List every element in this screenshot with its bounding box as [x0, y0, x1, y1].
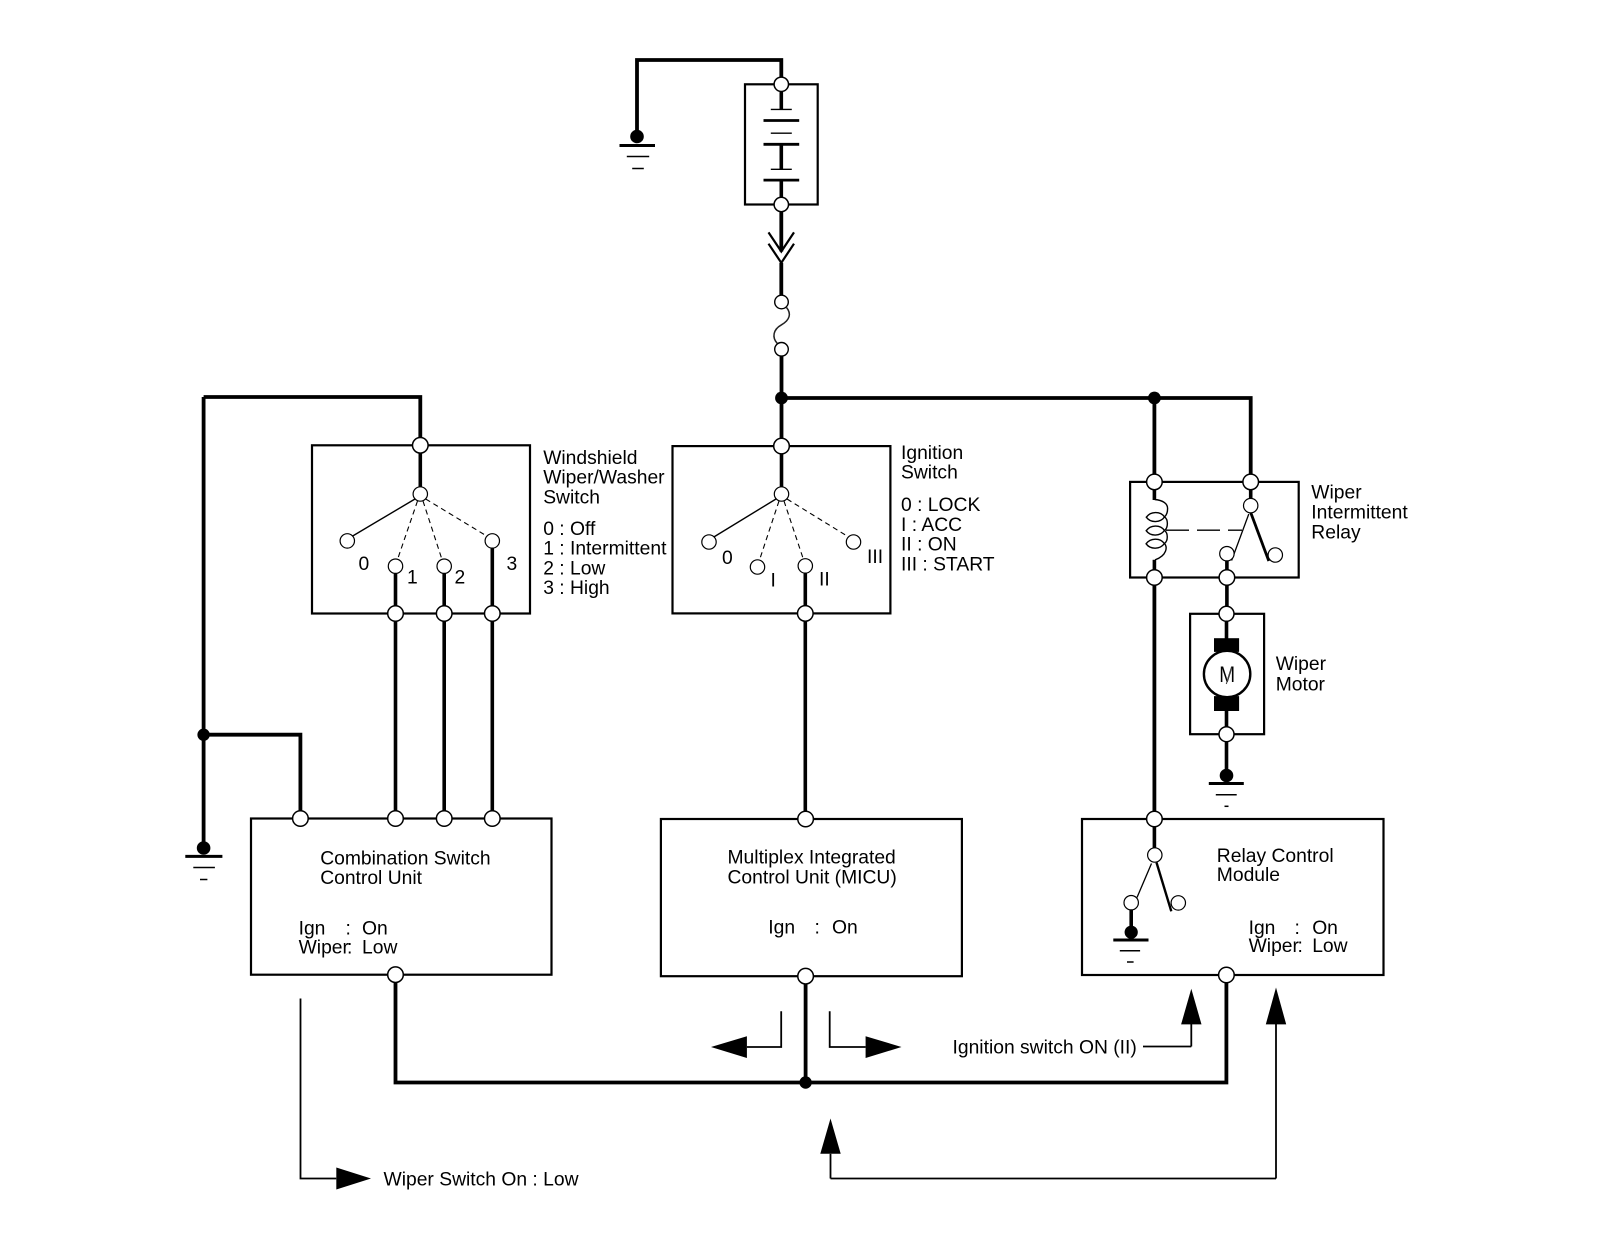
ignition switch arm to 0	[713, 499, 776, 538]
svg-text:Wiper: Wiper	[1311, 483, 1362, 504]
svg-text:Switch: Switch	[543, 487, 600, 508]
ground G1 top-left	[620, 130, 656, 169]
svg-text:Module: Module	[1217, 865, 1280, 886]
ground G3 under motor	[1209, 769, 1244, 807]
RCM contact to ground stub	[1129, 910, 1133, 927]
relay terminal bottom-left	[1147, 570, 1163, 586]
relay caption	[1311, 483, 1408, 544]
ignition switch	[673, 438, 891, 621]
node relay feed junction	[1148, 392, 1161, 405]
svg-text:1 : Intermittent: 1 : Intermittent	[543, 539, 667, 560]
relay terminal top-right	[1243, 474, 1259, 490]
wire MICU to bottom bus	[804, 984, 808, 1083]
wiper switch top terminal	[413, 438, 429, 454]
relay armature	[1251, 513, 1269, 562]
node bottom bus junction	[799, 1076, 811, 1088]
wiper switch bottom terminal 2	[436, 606, 452, 622]
svg-text:II : ON: II : ON	[901, 535, 957, 556]
wire junction to combination box	[204, 735, 301, 811]
svg-text:Low: Low	[1312, 936, 1347, 957]
wiper switch wire from 3	[490, 548, 494, 614]
ignition switch contact III	[846, 535, 860, 549]
svg-text:Control Unit (MICU): Control Unit (MICU)	[728, 868, 897, 889]
node left junction	[197, 729, 209, 741]
ignition switch wire from II	[803, 573, 807, 614]
MICU top terminal	[798, 811, 814, 827]
relay dashed link	[1166, 529, 1242, 531]
svg-text:Relay: Relay	[1311, 523, 1361, 544]
combination unit terminal a	[293, 811, 309, 827]
combination unit bottom terminal	[388, 967, 404, 983]
wire combination unit to wiper-on arrow	[301, 999, 337, 1179]
wiper switch contact 1	[388, 559, 402, 573]
relay armature pivot	[1244, 498, 1258, 512]
RCM open contact	[1171, 896, 1185, 910]
wire left vertical to junction	[202, 397, 206, 735]
ignition switch pivot	[774, 487, 788, 501]
wiper switch bottom terminal 3	[485, 606, 501, 622]
wire chevron to fuse	[779, 263, 783, 295]
svg-text:On: On	[362, 918, 388, 939]
wiper switch contact 3	[485, 534, 499, 548]
wiper intermittent relay	[1130, 474, 1299, 585]
wire label to arrow	[1143, 1046, 1191, 1048]
svg-text:0 : Off: 0 : Off	[543, 519, 596, 540]
svg-text:Wiper/Washer: Wiper/Washer	[543, 468, 665, 489]
wire ignition switch to MICU	[803, 621, 807, 811]
node main bus junction	[775, 392, 788, 405]
wiper switch arm to 0	[351, 499, 415, 537]
relay switch stub top	[1249, 489, 1253, 499]
wire wiper switch 3 to combination unit	[490, 621, 494, 811]
svg-text:Ignition: Ignition	[901, 443, 963, 464]
svg-text:Motor: Motor	[1276, 675, 1326, 696]
svg-text:Switch: Switch	[901, 463, 958, 484]
svg-text:I : ACC: I : ACC	[901, 515, 962, 536]
arrow wiper switch on	[336, 1168, 371, 1190]
fuse F1	[774, 295, 789, 356]
ignition switch dashed arm to II	[784, 501, 803, 559]
RCM switch arm alternate	[1137, 864, 1152, 898]
svg-text:I: I	[771, 571, 776, 592]
relay closed contact	[1220, 547, 1234, 561]
MICU output arrow right	[830, 1011, 902, 1058]
svg-text:Wiper: Wiper	[1276, 654, 1327, 675]
wiper switch contact 0	[340, 534, 354, 548]
wire bottom annotation	[831, 1178, 1277, 1180]
wiper motor top terminal	[1219, 606, 1234, 621]
svg-text:0 : LOCK: 0 : LOCK	[901, 495, 980, 516]
svg-text:Ign: Ign	[299, 918, 326, 939]
RCM closed contact	[1124, 896, 1138, 910]
wire junction down to relay coil	[1153, 398, 1157, 475]
ignition switch contact 0	[702, 535, 716, 549]
ignition switch contact I	[750, 560, 764, 574]
svg-text:II: II	[819, 570, 830, 591]
wiper switch dashed arm to 3	[426, 499, 488, 537]
battery	[745, 77, 818, 212]
svg-text:1: 1	[407, 568, 418, 589]
wire bottom bus to relay control module	[806, 983, 1227, 1083]
combination unit terminal b	[388, 811, 404, 827]
multiplex integrated control unit	[661, 811, 962, 984]
ignition switch dashed arm to I	[760, 501, 780, 560]
wiper switch caption	[543, 448, 667, 599]
combination switch control unit	[251, 811, 552, 983]
wire fuse to bus	[780, 356, 784, 398]
wire bus to relay	[782, 398, 1251, 475]
RCM bottom terminal	[1219, 967, 1235, 983]
svg-text:0: 0	[359, 554, 370, 575]
relay terminal bottom-middle	[1219, 570, 1235, 586]
svg-text:Ignition switch ON (II): Ignition switch ON (II)	[953, 1037, 1137, 1058]
svg-text:Control Unit: Control Unit	[320, 868, 422, 889]
wiper switch bottom terminal 1	[388, 606, 404, 622]
relay control module	[1082, 811, 1384, 983]
wiper motor bottom terminal	[1219, 727, 1234, 742]
svg-text:Wiper Switch On : Low: Wiper Switch On : Low	[384, 1169, 579, 1190]
svg-text:2 : Low: 2 : Low	[543, 558, 605, 579]
RCM switch pivot	[1148, 848, 1162, 862]
wiper motor	[1190, 606, 1264, 741]
wire combination unit to bottom bus	[396, 983, 806, 1083]
svg-text::: :	[1298, 936, 1303, 957]
svg-text:2: 2	[455, 568, 466, 589]
svg-text:3: 3	[507, 554, 518, 575]
MICU output arrow left	[711, 1011, 781, 1058]
relay coil stub top	[1153, 489, 1157, 500]
relay open contact	[1268, 548, 1282, 562]
svg-text:On: On	[832, 918, 858, 939]
arrow up to bottom bus	[820, 1119, 840, 1179]
svg-text::: :	[815, 918, 820, 939]
svg-text:Wiper: Wiper	[299, 937, 350, 958]
ignition switch top terminal	[774, 438, 790, 454]
svg-text::: :	[346, 918, 351, 939]
relay coil	[1146, 500, 1168, 560]
wiper switch dashed arm to 2	[423, 501, 442, 560]
arrow up into RCM right	[1266, 988, 1286, 1179]
svg-text:3 : High: 3 : High	[543, 578, 609, 599]
wire wiper switch 1 to combination unit	[394, 621, 398, 811]
wiper switch pivot	[413, 487, 427, 501]
svg-text:0: 0	[722, 548, 733, 569]
wire junction to ground	[202, 735, 206, 843]
wire relay to wiper motor	[1225, 585, 1229, 607]
combination unit terminal d	[485, 811, 501, 827]
combination unit terminal c	[436, 811, 452, 827]
svg-text:Intermittent: Intermittent	[1311, 503, 1408, 524]
relay coil stub bottom	[1153, 560, 1157, 571]
wire relay to relay control module	[1153, 585, 1157, 811]
svg-text:Combination Switch: Combination Switch	[320, 848, 490, 869]
wire motor to ground	[1225, 742, 1229, 770]
wire bus down to ignition switch	[780, 398, 784, 439]
windshield wiper/washer switch	[312, 438, 530, 622]
wiper switch contact 2	[437, 559, 451, 573]
wire battery top to ground	[637, 60, 781, 130]
wire wiper switch 2 to combination unit	[442, 621, 446, 811]
svg-text:Windshield: Windshield	[543, 448, 637, 469]
wire left feed to wiper switch	[204, 397, 421, 438]
ground G2 bottom-left	[185, 841, 222, 879]
ignition switch caption	[901, 443, 995, 576]
RCM switch stub	[1153, 826, 1157, 848]
arrow up into RCM left	[1181, 989, 1201, 1047]
svg-text:M: M	[1219, 662, 1235, 687]
svg-text:III : START: III : START	[901, 554, 995, 575]
svg-text:Ign: Ign	[768, 918, 795, 939]
ignition switch dashed arm to III	[787, 499, 849, 537]
relay armature alternate	[1232, 514, 1249, 561]
connector chevrons	[769, 232, 795, 262]
wiper switch dashed arm to 1	[398, 501, 418, 560]
wiper motor caption	[1276, 654, 1327, 696]
svg-text:III: III	[867, 547, 883, 568]
svg-text:Wiper: Wiper	[1249, 936, 1300, 957]
svg-text:Relay Control: Relay Control	[1217, 846, 1334, 867]
wiper switch wire from 1	[394, 573, 398, 614]
svg-text::: :	[347, 937, 352, 958]
svg-text:Low: Low	[362, 937, 397, 958]
RCM internal ground	[1125, 926, 1138, 939]
ignition switch contact II	[798, 559, 812, 573]
MICU bottom terminal	[798, 968, 814, 984]
wire battery to fuse	[779, 212, 783, 252]
RCM top terminal	[1147, 811, 1163, 827]
RCM switch arm	[1157, 863, 1172, 912]
wiper switch wire from 2	[442, 573, 446, 614]
relay terminal top-left	[1147, 474, 1163, 490]
relay contact stub	[1225, 560, 1229, 571]
ignition switch bottom terminal	[798, 606, 814, 622]
svg-text:Multiplex Integrated: Multiplex Integrated	[728, 848, 896, 869]
